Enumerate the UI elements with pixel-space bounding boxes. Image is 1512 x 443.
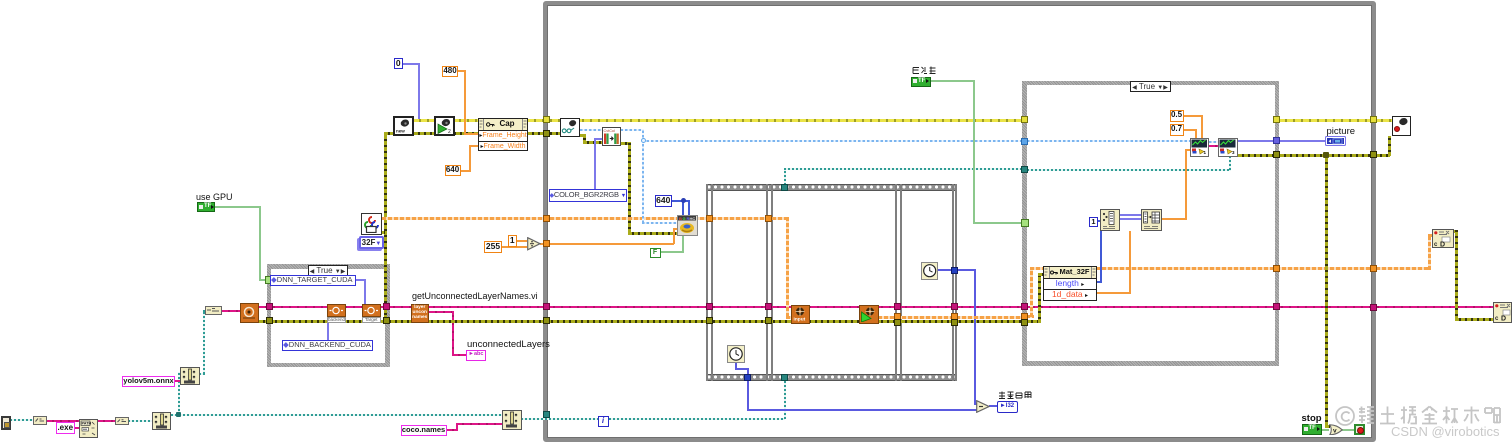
- wire olive riser at x384.5 (case out up to top rail): [384, 132, 387, 319]
- F boolean constant: [650, 248, 661, 258]
- tunnel magenta lcase-right: [383, 303, 390, 310]
- tunnel magenta rcase-left: [1021, 303, 1028, 310]
- dbl constant 1: [508, 235, 517, 247]
- True selector (right case): [1130, 81, 1171, 92]
- strip path icon 1: [33, 416, 47, 425]
- wire magenta: path-to-string to readNet: [222, 310, 240, 312]
- wire teal: seq top tunnel to right case: [784, 168, 786, 185]
- draw detections icon B: [1218, 138, 1238, 157]
- svg-text:2: 2: [448, 129, 451, 134]
- tunnel orange-dash seq-div1: [765, 215, 772, 222]
- wire teal inside case up to icon B: [1027, 169, 1231, 171]
- postprocess label (fake CJK): [912, 66, 937, 75]
- wire orange: icon D out up to icon A: [1162, 218, 1187, 220]
- path to string icon: [205, 306, 222, 315]
- svg-text:c: c: [1495, 316, 1499, 322]
- wire blue: 1 into icon C: [1097, 220, 1101, 222]
- wire teal: strip2 to open icon: [128, 420, 152, 422]
- svg-text:D: D: [1501, 316, 1506, 322]
- tunnel orange loop-left: [543, 240, 550, 247]
- tunnel olive loop-left: [543, 130, 550, 137]
- camera open icon: [434, 116, 455, 136]
- flat sequence structure: [706, 184, 958, 382]
- tunnel violet rcase-right: [1273, 137, 1280, 144]
- tunnel magenta seq-right: [951, 303, 958, 310]
- wire olive: read icon step to cvtColor: [580, 134, 586, 137]
- wire green: postprocess TF to case selector: [931, 80, 974, 82]
- seq left border: [706, 184, 708, 382]
- tunnel orange-dash rcase-left: [1021, 313, 1028, 320]
- combo DNN_BACKEND_CUDA: [282, 340, 373, 352]
- wire olive: CD1 to CD2: [1454, 230, 1458, 233]
- clock icon frame1: [727, 345, 745, 364]
- subtract node: [976, 400, 990, 413]
- tunnel olive lcase-left: [266, 317, 273, 324]
- case structure (left, DNN backend/target): [267, 264, 390, 367]
- camera new icon: [393, 116, 414, 136]
- Mat_32F property node: [1043, 266, 1097, 301]
- tunnel olive seq-div2: [894, 319, 901, 326]
- tunnel olive lcase-right: [383, 317, 390, 324]
- wire teal: open icon output to build path 3: [171, 414, 502, 416]
- wire orange dashed: forward icon to right case: [878, 316, 1023, 319]
- wire orange: 480 to Frame_Height: [457, 70, 466, 72]
- tunnel blue seq-bottom: [744, 374, 751, 381]
- postprocess boolean: [911, 77, 931, 87]
- case structure (right, postprocess True): [1022, 81, 1279, 366]
- wire green: F bool to blob: [660, 251, 684, 253]
- inference time indicator: [997, 401, 1018, 413]
- seq bottom film border: [706, 374, 958, 382]
- svg-text:CvtCol: CvtCol: [603, 129, 615, 133]
- use GPU boolean: [197, 202, 215, 212]
- selector tunnel right case: [1021, 219, 1029, 227]
- OR gate: [1329, 424, 1343, 436]
- wire orange: 0.7 into icon A: [1183, 129, 1197, 131]
- tunnel teal rcase-left: [1021, 166, 1028, 173]
- tunnel teal seq-bottom: [781, 374, 788, 381]
- tunnel magenta seq-div1: [765, 303, 772, 310]
- tunnel olive2 loop-left: [543, 317, 550, 324]
- wire teal: bottom to sequence riser: [521, 418, 785, 420]
- clock icon frame3: [921, 262, 939, 280]
- wire blue: subtract to indicator: [989, 405, 998, 407]
- int constant 1 (index): [1089, 217, 1098, 227]
- seq divider 2: [895, 184, 897, 382]
- wire olive: loop edge to release icon: [1376, 154, 1390, 157]
- stop boolean: [1302, 424, 1322, 435]
- wire orange: 640 to Frame_Width: [460, 170, 471, 172]
- use GPU label: [196, 192, 233, 202]
- tunnel olive seq-right: [951, 319, 958, 326]
- wire orange: 1 to divide: [515, 240, 527, 242]
- release Mat icon CD1: [1432, 229, 1454, 249]
- wire yellow: cam new to cam open to Cap: [413, 119, 479, 122]
- svg-text:Input: Input: [793, 316, 805, 322]
- tunnel magenta loop-left: [543, 303, 550, 310]
- wire orange dashed: 32F icon to blob to sequence: [382, 217, 788, 220]
- wire violet: 0 const down: [402, 63, 420, 65]
- tunnel orange-dash seq-right: [951, 313, 958, 320]
- unconnectedLayers indicator: [466, 350, 486, 361]
- wire olive: icon B out to loop edge: [1238, 154, 1370, 157]
- build path icon 3: [502, 410, 522, 430]
- backend icon: [327, 304, 346, 323]
- tunnel olive seq-left: [706, 317, 713, 324]
- junction teal: [176, 412, 181, 417]
- svg-text:D: D: [1440, 241, 1445, 247]
- wire blue: length row up to icon C: [1097, 281, 1102, 283]
- dbl constant 480: [442, 66, 458, 77]
- draw detections icon A: [1190, 138, 1210, 157]
- selector tunnel left case: [265, 276, 273, 284]
- wire magenta: .exe to build path 1: [73, 427, 80, 429]
- tunnel orange-dash rcase-right: [1273, 265, 1280, 272]
- wire magenta branch: layer names down to unconnectedLayers: [429, 311, 453, 313]
- tunnel magenta loop-right: [1370, 304, 1377, 311]
- tunnel magenta lcase-left: [266, 303, 273, 310]
- combo DNN_TARGET_CUDA: [270, 275, 356, 286]
- build path icon 1: [79, 419, 98, 438]
- Target icon: [362, 304, 381, 323]
- forward icon: [859, 305, 879, 325]
- tunnel yellow loop-right: [1370, 116, 1377, 123]
- iteration terminal i: [598, 416, 609, 427]
- watermark CSDN: [1391, 424, 1500, 439]
- wire violet: backend icon to DNN_BACKEND_CUDA combo: [327, 322, 329, 340]
- svg-text:3: 3: [1232, 150, 1235, 155]
- wire teal: app dir to strip path 1: [10, 419, 33, 421]
- wire lightblue: down to blob: [642, 140, 644, 223]
- tunnel orange-dash loop-right: [1370, 265, 1377, 272]
- dbl constant 640: [445, 165, 461, 176]
- loop condition terminal: [1354, 424, 1366, 436]
- wire orange: 0.5 into icon A: [1183, 115, 1202, 117]
- tunnel olive rcase-left: [1021, 319, 1028, 326]
- wire violet: icon B to picture: [1238, 140, 1325, 142]
- wire lightblue: long rail to right case: [642, 140, 1023, 142]
- Input icon (setInput): [791, 305, 810, 324]
- wire blue: clock1 to subtract: [735, 362, 737, 370]
- seq right border: [952, 184, 954, 382]
- dbl constant 255: [484, 241, 502, 253]
- seq top film border: [706, 184, 958, 191]
- int constant 0: [394, 58, 404, 69]
- svg-text:1: 1: [1203, 150, 1206, 155]
- reshape array icon D: [1141, 209, 1162, 231]
- tunnel olive loop-right: [1370, 151, 1377, 158]
- strip path icon 2: [115, 417, 129, 425]
- string constant yolov5m.onnx: [122, 376, 175, 388]
- unconnectedLayers label: [467, 340, 550, 350]
- wire lightblue: read icon to junction ring: [580, 129, 644, 131]
- wire olive: cvtColor down to blob: [621, 142, 630, 145]
- release Mat icon CD2: [1493, 302, 1512, 323]
- wire teal: build path 2 up to path-to-string: [199, 373, 205, 375]
- wire violet: COLOR combo to cvtColor: [594, 138, 596, 189]
- wire yellow: Cap to loop, read icon, across to right case: [528, 119, 1022, 122]
- junction ring lightblue: [641, 138, 646, 143]
- wire olive branch down to OR gate: [1325, 154, 1328, 426]
- tunnel olive seq-div1: [765, 317, 772, 324]
- wire teal riser to build path 2: [178, 372, 180, 415]
- picture label: [1327, 127, 1356, 137]
- wire magenta: build path 1 to strip 2: [97, 420, 116, 422]
- tunnel magenta rcase-right: [1273, 303, 1280, 310]
- stop label: [1302, 414, 1322, 424]
- wire magenta: coco.names to build path 3: [446, 429, 458, 431]
- wire green: OR to loop terminal: [1342, 429, 1354, 431]
- wire magenta: strip1 to build path 1: [46, 420, 80, 422]
- tunnel yellow loop-left: [543, 116, 550, 123]
- seq divider 1: [766, 184, 768, 382]
- tunnel magenta seq-left: [706, 303, 713, 310]
- svg-text:G: G: [682, 216, 685, 221]
- tunnel teal seq-top: [781, 184, 788, 191]
- readNet icon: [240, 303, 259, 323]
- string constant coco.names: [401, 425, 447, 437]
- wire olive inside case: up to Mat_32F: [1027, 320, 1040, 323]
- wire olive main: readNet to right case: [259, 320, 1024, 323]
- application directory icon: [1, 416, 11, 430]
- wire orange: 255 to divide: [501, 246, 527, 248]
- while loop: [543, 1, 1376, 442]
- wire olive stub into 32F convert icon: [380, 231, 385, 234]
- tunnel blue seq-right: [951, 267, 958, 274]
- combo COLOR_BGR2RGB: [549, 189, 627, 202]
- True selector (left case): [308, 265, 348, 276]
- blobFromImage icon: [677, 215, 698, 236]
- wire lightblue inside case to icon A: [1027, 140, 1190, 142]
- build path icon 2: [180, 367, 200, 385]
- svg-text:new: new: [396, 129, 405, 134]
- svg-text:HC: HC: [689, 216, 695, 221]
- junction olive: [1323, 152, 1329, 158]
- wire magenta: icon A to icon B: [1209, 145, 1218, 147]
- dbl constant 0.5: [1170, 110, 1184, 122]
- svg-text:c: c: [1434, 242, 1438, 248]
- wire violet: DNN_TARGET_CUDA combo to Target icon: [356, 279, 366, 281]
- tunnel orange-dash loop-left: [543, 215, 550, 222]
- tunnel yellow rcase-right: [1273, 116, 1280, 123]
- wire lightblue: icon A to icon B: [1209, 141, 1218, 143]
- 32F convert icon: [361, 213, 383, 235]
- camera read icon: [560, 118, 580, 137]
- wire blue: clock3 to subtract: [938, 269, 975, 271]
- index array icon C: [1100, 209, 1120, 231]
- tunnel magenta seq-div2: [894, 303, 901, 310]
- tunnel lightblue rcase-left: [1021, 138, 1028, 145]
- wire orange solid: divide out to blob: [540, 243, 674, 245]
- wire blue: 640 to blob width/height: [671, 200, 689, 202]
- wire green: stop to OR: [1321, 429, 1329, 431]
- tunnel yellow rcase-left: [1021, 116, 1028, 123]
- wire green: use GPU to case selector: [214, 206, 260, 208]
- inference time label (fake CJK): [998, 391, 1032, 400]
- divide node: [527, 237, 541, 251]
- tunnel olive rcase-right: [1273, 151, 1280, 158]
- wire olive top rail to loop: [384, 132, 561, 135]
- wire orange dashed inside case: up and right: [1026, 315, 1034, 318]
- wire orange dashed drop to Input icon: [786, 217, 789, 317]
- cvtColor icon: [602, 127, 622, 146]
- wire magenta main: readNet to far right: [259, 306, 1493, 308]
- tunnel teal loop-left: [543, 411, 550, 418]
- tunnel orange-dash seq-div2: [894, 313, 901, 320]
- wire yellow: right of case to release: [1279, 119, 1392, 122]
- 32F combo: [359, 236, 384, 249]
- Cap property node: [478, 118, 528, 151]
- tunnel orange-dash seq-left: [706, 215, 713, 222]
- int constant 640 (blob size): [655, 195, 673, 207]
- picture indicator: [1325, 136, 1346, 147]
- open/create file icon: [152, 412, 172, 430]
- svg-text:v: v: [1333, 427, 1337, 434]
- watermark juejin (fake CJK): [1335, 403, 1503, 427]
- string constant .exe: [56, 422, 75, 435]
- dbl constant 0.7: [1170, 124, 1184, 136]
- wire violet pair: icon C to icon D: [1120, 214, 1142, 216]
- getUnconnectedLayerNames.vi label: [412, 291, 538, 301]
- svg-text:PATH: PATH: [82, 421, 92, 425]
- wire orange dashed: loop edge to CD icon 1: [1376, 267, 1431, 270]
- wire orange: 1d_data up to icon D: [1097, 292, 1131, 294]
- getUnconnectedLayerNames icon: [411, 304, 430, 323]
- camera release icon: [1392, 116, 1411, 136]
- wire magenta: yolov5m.onnx to build path 2: [174, 380, 180, 382]
